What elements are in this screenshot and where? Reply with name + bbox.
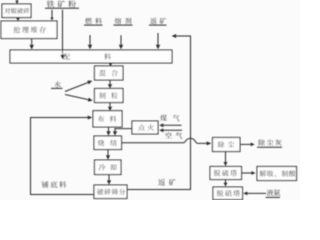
wire: stockpile to batching bbox=[30, 39, 34, 50]
label: water (shui, underlined) bbox=[54, 81, 61, 87]
wire: air into ignition bbox=[159, 128, 182, 132]
process box: ignition (dian huo) bbox=[132, 121, 158, 134]
wire: desulfurization to denitration bbox=[224, 180, 228, 187]
underline of liquid ammonia label bbox=[266, 196, 281, 198]
wire: water to granulation bbox=[65, 95, 93, 102]
underline of flux label bbox=[114, 24, 133, 26]
process box: crushing & screening (po sui shai fen) bbox=[94, 185, 127, 199]
label: liquid ammonia (ye an, underlined) bbox=[267, 189, 280, 196]
wire: desulfurization to desorption/acid bbox=[242, 171, 256, 175]
process box: batching (pei liao) bbox=[10, 50, 172, 63]
process box: dust removal (chu chen) bbox=[213, 138, 241, 152]
wire: granulation to charging bbox=[108, 103, 112, 111]
underline of return fines label bbox=[149, 24, 167, 26]
wire: ore to stockpile bbox=[50, 10, 53, 21]
label: fuel (ran liao, underlined) bbox=[85, 18, 102, 24]
wire: batching to mixing bbox=[109, 63, 112, 66]
wire: crusher to stockpile bbox=[16, 18, 19, 22]
process box: sintering (shao jie) bbox=[94, 136, 122, 150]
label: air (kong qi) bbox=[165, 132, 182, 138]
wire: charging to sintering bbox=[106, 127, 110, 136]
process box: cooling (leng que) bbox=[95, 160, 122, 175]
process box: denitration tower (tuo xiao ta) bbox=[213, 187, 243, 200]
wire: dust removal to desulfurization bbox=[224, 152, 228, 167]
label: return fines bottom (fan kuang) bbox=[158, 179, 176, 186]
process box: desorption & acid making (jie xi, zhi suan) bbox=[257, 167, 297, 181]
underline of iron ore fines label bbox=[45, 7, 79, 9]
underline of fuel label bbox=[84, 24, 103, 26]
wire: sintering to cooling bbox=[106, 150, 110, 160]
wire: mixing to granulation bbox=[108, 80, 112, 88]
wire: liquid ammonia into denitration bbox=[243, 192, 266, 196]
wire: ignition to sintering bbox=[113, 129, 132, 136]
label: hearth layer material (pu di liao) bbox=[42, 181, 66, 188]
wire: ore direct to batching bbox=[60, 10, 64, 60]
label: iron ore fines (underlined) bbox=[47, 0, 76, 7]
wire: coal gas into ignition bbox=[159, 123, 181, 127]
wire: return fines from crushing up to batching bbox=[127, 34, 191, 190]
label: dust ash (chu chen hui, underlined) bbox=[259, 139, 282, 145]
wire: water to mixing bbox=[65, 81, 92, 92]
process box: roll crushing (dui gun po sui) bbox=[2, 4, 31, 18]
label: coal gas (mei qi) bbox=[160, 115, 179, 121]
underline of dust ash label bbox=[257, 146, 282, 148]
label: return fines top (fan kuang, underlined) bbox=[150, 18, 166, 24]
wire: fuel into batching bbox=[88, 35, 92, 49]
process box: charging / feeding (bu liao) bbox=[93, 111, 122, 127]
wire: flux into batching bbox=[119, 35, 123, 49]
wire: dust removal to dust ash bbox=[240, 143, 255, 147]
wire: cooling to crushing-screening bbox=[107, 175, 111, 185]
wire: return fines into batching bbox=[156, 33, 160, 49]
label: flux (rong ji, underlined) bbox=[115, 18, 132, 25]
wire: hearth layer return from crushing to charging bbox=[31, 116, 95, 195]
wire: feed into roll crusher bbox=[15, 0, 18, 4]
process box: desulfurization tower (tuo liu ta) bbox=[210, 167, 242, 180]
process box: mixing (hun he) bbox=[95, 66, 124, 80]
wire: sinter flue gas to dust removal (with hop over riser) bbox=[122, 138, 207, 143]
process box: granulation (zhi li) bbox=[95, 89, 124, 103]
underline of water label bbox=[51, 87, 63, 89]
process box: sorting & stockpiling bbox=[1, 21, 57, 39]
